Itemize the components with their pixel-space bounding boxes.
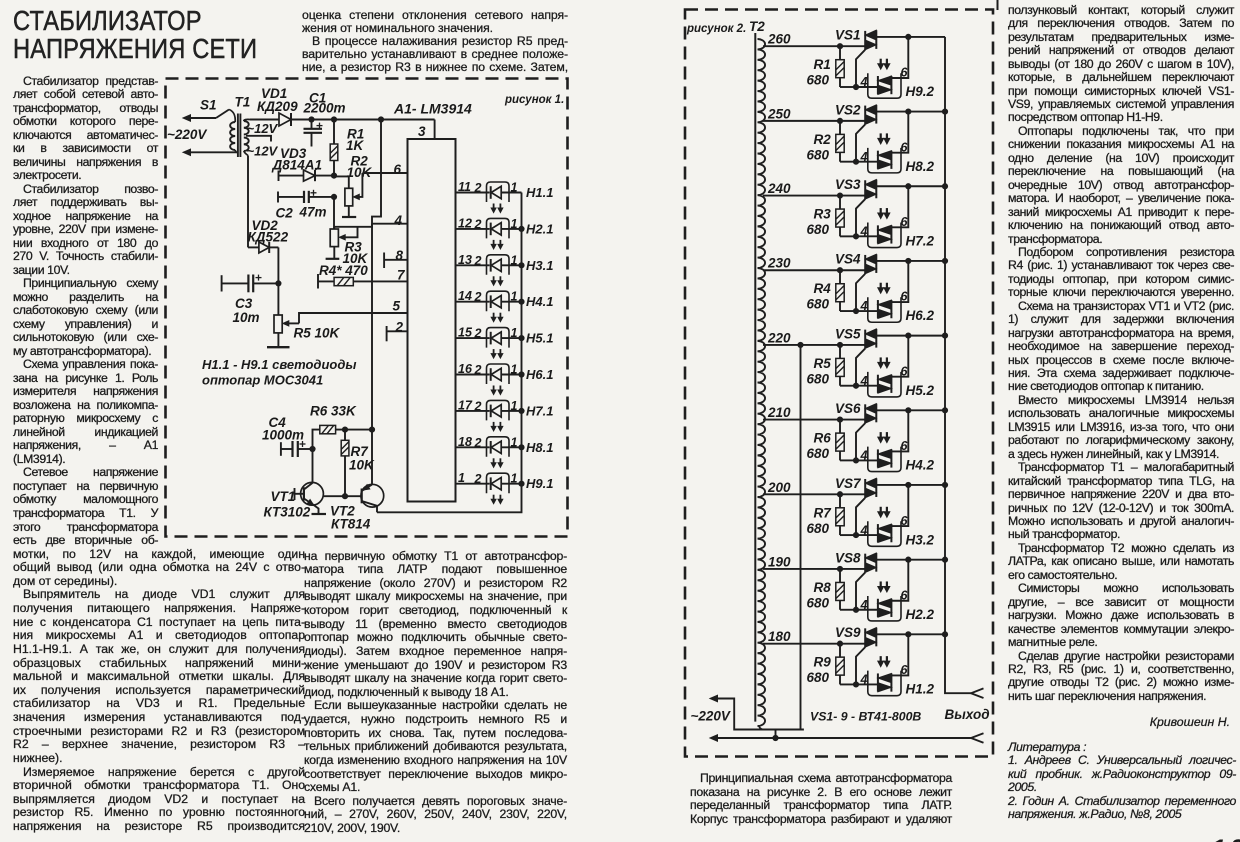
svg-text:Н8.1: Н8.1 xyxy=(526,440,553,455)
node tap 250 / R2 junction xyxy=(837,118,842,123)
svg-text:S1: S1 xyxy=(200,98,217,113)
svg-text:VS7: VS7 xyxy=(835,476,862,491)
svg-text:VS9: VS9 xyxy=(835,625,861,640)
wire to pin 6 of Н7.2 xyxy=(891,186,908,229)
emission arrows of Н7.2 xyxy=(878,208,890,219)
triac VS8 xyxy=(835,550,876,572)
wire pin 4 of Н7.2 xyxy=(856,225,878,239)
photo-triac of Н2.2 xyxy=(878,599,892,617)
label T2 xyxy=(749,19,765,34)
resistor R9 680 xyxy=(807,644,857,686)
svg-text:4: 4 xyxy=(860,75,868,89)
svg-text:220: 220 xyxy=(767,330,791,345)
photo-triac of Н7.2 xyxy=(878,225,892,243)
svg-text:680: 680 xyxy=(807,670,830,685)
wire to pin 6 of Н5.2 xyxy=(891,336,908,379)
node gate junction VS7 xyxy=(853,532,858,537)
wire centre tap of T1 xyxy=(246,136,271,142)
svg-text:Н9.2: Н9.2 xyxy=(906,84,935,99)
open terminal of C3 line xyxy=(221,275,223,291)
emission arrows of Н7.1 xyxy=(491,422,503,431)
svg-text:3: 3 xyxy=(418,124,426,139)
node tap 240 / R3 junction xyxy=(837,193,842,198)
node opto feed junction xyxy=(906,408,911,413)
wire pin 4 xyxy=(372,213,407,228)
node output bus junction xyxy=(942,408,947,413)
wire R6 left lead to C4 node xyxy=(313,430,320,449)
wire tap 210 xyxy=(763,405,865,420)
wire gate of VS8 xyxy=(856,572,865,609)
label VS1-9 - ВТ41-800В xyxy=(810,710,921,724)
svg-text:680: 680 xyxy=(807,595,830,610)
wire VS8 output xyxy=(876,559,945,561)
svg-text:R6 33K: R6 33K xyxy=(310,404,357,419)
wire R1 to VD3 node xyxy=(333,161,335,176)
svg-text:1: 1 xyxy=(511,399,518,413)
label Н7.2 xyxy=(906,234,935,249)
node gate junction VS9 xyxy=(853,682,858,687)
svg-text:Н6.1: Н6.1 xyxy=(526,367,553,382)
svg-text:R9: R9 xyxy=(814,655,832,670)
node tap 260 / R1 junction xyxy=(837,44,842,49)
wire tap 240 xyxy=(763,181,865,196)
resistor R4* 470 xyxy=(318,263,407,286)
wire pin 6 xyxy=(362,162,407,177)
emission arrows of Н3.2 xyxy=(878,507,890,518)
transformer T1 core xyxy=(238,114,241,158)
svg-text:1: 1 xyxy=(511,363,518,377)
LED of optocoupler Н9.1 xyxy=(487,472,522,494)
svg-text:Н1.2: Н1.2 xyxy=(906,682,935,697)
wire to pin 6 of Н4.2 xyxy=(891,410,908,453)
svg-text:1: 1 xyxy=(511,326,518,340)
wire ~220V upper terminal xyxy=(710,695,804,729)
svg-text:2: 2 xyxy=(474,436,482,450)
svg-text:2: 2 xyxy=(474,399,482,413)
node opto feed junction xyxy=(906,557,911,562)
transistor VT2 КТ814 xyxy=(330,484,384,531)
svg-text:1: 1 xyxy=(511,217,518,231)
label Н5.2 xyxy=(906,383,935,398)
svg-text:рисунок 1.: рисунок 1. xyxy=(504,94,564,106)
wire gate of VS4 xyxy=(856,274,865,311)
node LED bus junction xyxy=(519,336,524,341)
wire VS4 output xyxy=(876,260,945,262)
svg-text:4: 4 xyxy=(394,213,403,228)
label рисунок 1 xyxy=(504,94,564,106)
label pin 7 xyxy=(397,268,406,283)
label ~220V (fig1 input) xyxy=(167,127,207,142)
emission arrows of Н8.2 xyxy=(878,133,890,144)
LED of optocoupler Н2.1 xyxy=(487,217,522,239)
wire pin 4 of Н1.2 xyxy=(856,673,878,687)
svg-text:200: 200 xyxy=(767,480,791,495)
svg-text:Н2.2: Н2.2 xyxy=(906,607,935,622)
wire pin4 jog to R3 xyxy=(334,224,372,227)
svg-text:Н7.1: Н7.1 xyxy=(526,403,553,418)
svg-text:рисунок 2.: рисунок 2. xyxy=(686,23,746,35)
svg-text:680: 680 xyxy=(807,521,830,536)
svg-text:4: 4 xyxy=(860,225,868,239)
svg-text:Н5.1: Н5.1 xyxy=(526,331,553,346)
label Н4.2 xyxy=(906,458,935,473)
wire VS6 output xyxy=(876,409,945,411)
label Выход xyxy=(945,707,990,722)
label Н1.2 xyxy=(906,682,935,697)
svg-text:Н2.1: Н2.1 xyxy=(526,221,553,236)
wire output bus xyxy=(945,37,971,693)
open terminal of C4 line xyxy=(280,442,282,456)
LED of optocoupler Н7.1 xyxy=(487,399,522,421)
node opto feed junction xyxy=(906,482,911,487)
optocoupler triac Н1.2 housing xyxy=(868,671,901,696)
node gate junction VS5 xyxy=(853,383,858,388)
wire pin 12 to LED xyxy=(456,216,490,231)
svg-text:R5: R5 xyxy=(814,356,832,371)
svg-text:Выход: Выход xyxy=(945,707,990,722)
wire tap 220 xyxy=(763,330,865,345)
svg-text:~220V: ~220V xyxy=(691,709,731,724)
svg-text:1: 1 xyxy=(511,253,518,267)
svg-text:10m: 10m xyxy=(233,310,260,325)
wire base line VT1-R7-VT2 xyxy=(323,494,361,499)
wire pin 17 to LED xyxy=(456,398,490,413)
triac VS7 xyxy=(835,476,876,498)
svg-text:~12V: ~12V xyxy=(247,121,279,136)
wire pin 4 of Н2.2 xyxy=(856,598,878,612)
svg-text:1: 1 xyxy=(458,471,465,485)
label Н3.1 xyxy=(526,258,553,273)
wire pin 4 of Н3.2 xyxy=(856,523,878,537)
svg-text:VS2: VS2 xyxy=(835,102,861,117)
svg-text:14: 14 xyxy=(458,289,472,303)
wire rail down to R1 xyxy=(333,120,335,145)
wire gate of VS6 xyxy=(856,423,865,460)
svg-text:4: 4 xyxy=(860,374,868,388)
wire R2 bottom lead xyxy=(348,206,350,217)
node gate junction VS2 xyxy=(853,159,858,164)
node LED bus junction xyxy=(519,299,524,304)
wire pin 4 of Н4.2 xyxy=(856,449,878,463)
label Н8.1 xyxy=(526,440,553,455)
svg-text:4: 4 xyxy=(860,150,868,164)
node gate junction VS1 xyxy=(853,84,858,89)
svg-text:2: 2 xyxy=(474,254,482,268)
wire secondary bottom to VD2 xyxy=(247,156,249,248)
triac VS4 xyxy=(835,252,876,274)
output terminal chevron lower xyxy=(971,733,984,743)
emission arrows of Н8.1 xyxy=(491,458,503,467)
svg-text:7: 7 xyxy=(397,268,406,283)
photo-triac of Н1.2 xyxy=(878,673,892,691)
wire tap 250 xyxy=(763,106,865,121)
wire VT1 collector to C4 node xyxy=(312,449,314,483)
node LED bus junction xyxy=(519,445,524,450)
label Н6.1 xyxy=(526,367,553,382)
node opto feed junction xyxy=(906,184,911,189)
wire to pin 6 of Н3.2 xyxy=(891,485,908,528)
node tap 180 / R9 junction xyxy=(837,641,842,646)
node VD3 junction xyxy=(331,173,336,178)
node output bus junction xyxy=(942,557,947,562)
wire pin 4 of Н6.2 xyxy=(856,299,878,313)
wire VD3 line xyxy=(279,175,335,177)
svg-text:Н9.1: Н9.1 xyxy=(526,476,553,491)
resistor R6 33K xyxy=(310,404,372,434)
trimmer R2 10K xyxy=(345,154,373,206)
emission arrows of Н5.1 xyxy=(491,349,503,358)
output terminal chevron upper xyxy=(971,688,984,698)
wire pin 5 xyxy=(299,299,407,324)
open terminal of R4 line xyxy=(317,274,319,289)
emission arrows of Н5.2 xyxy=(878,357,890,368)
wire gate of VS7 xyxy=(856,498,865,535)
svg-text:4: 4 xyxy=(860,673,868,687)
svg-text:12: 12 xyxy=(458,216,472,230)
svg-text:680: 680 xyxy=(807,446,830,461)
svg-text:680: 680 xyxy=(807,147,830,162)
wire R3 bottom lead xyxy=(333,247,335,259)
wire VS7 output xyxy=(876,484,945,486)
optocoupler triac Н8.2 housing xyxy=(868,148,901,173)
svg-text:R2: R2 xyxy=(814,132,832,147)
node opto feed junction xyxy=(906,109,911,114)
wire pin 13 to LED xyxy=(456,253,490,268)
node opto feed junction xyxy=(906,34,911,39)
transformer T1 primary winding xyxy=(229,110,237,153)
wire tap 200 xyxy=(763,480,865,495)
svg-text:R5 10K: R5 10K xyxy=(294,326,341,341)
wire top rail V+ xyxy=(291,119,435,121)
svg-text:VS5: VS5 xyxy=(835,326,861,341)
svg-text:оптопар МОС3041: оптопар МОС3041 xyxy=(202,373,323,388)
capacitor C1 2200m xyxy=(303,91,346,147)
node opto feed junction xyxy=(906,258,911,263)
figure 2 dashed border xyxy=(685,10,993,757)
svg-text:2: 2 xyxy=(474,327,482,341)
svg-text:Н4.2: Н4.2 xyxy=(906,458,935,473)
wire VS3 output xyxy=(876,185,945,187)
node LED bus junction xyxy=(519,372,524,377)
svg-text:C3: C3 xyxy=(235,296,253,311)
capacitor C2 47m xyxy=(276,190,335,221)
LED of optocoupler Н4.1 xyxy=(487,290,522,312)
wire to pin 6 of Н6.2 xyxy=(891,261,908,304)
node gate junction VS4 xyxy=(853,308,858,313)
node C1 junction xyxy=(309,117,314,122)
svg-text:2200m: 2200m xyxy=(303,101,346,116)
svg-text:2: 2 xyxy=(474,363,482,377)
svg-text:16: 16 xyxy=(458,362,473,376)
wire VS9 output xyxy=(876,633,945,635)
svg-text:Н1.1: Н1.1 xyxy=(526,185,553,200)
svg-text:R1: R1 xyxy=(814,57,831,72)
wire tap 180 xyxy=(763,629,865,644)
label Н2.1 xyxy=(526,221,553,236)
photo-triac of Н4.2 xyxy=(878,449,892,467)
svg-text:~220V: ~220V xyxy=(167,127,207,142)
trimmer R5 10K xyxy=(274,283,341,340)
node output bus junction xyxy=(942,333,947,338)
node LED bus junction xyxy=(519,226,524,231)
svg-text:250: 250 xyxy=(767,106,791,121)
svg-text:1: 1 xyxy=(511,290,518,304)
svg-text:2: 2 xyxy=(474,181,482,195)
svg-text:15: 15 xyxy=(458,326,473,340)
wire gate of VS9 xyxy=(856,647,865,684)
label Н6.2 xyxy=(906,308,935,323)
svg-text:2: 2 xyxy=(395,320,404,335)
wire pin 4 of Н5.2 xyxy=(856,374,878,388)
svg-text:КТ814: КТ814 xyxy=(331,517,371,532)
switch S1 xyxy=(183,98,229,122)
autotransformer T2 core xyxy=(754,33,756,722)
node opto feed junction xyxy=(906,632,911,637)
label Н9.1 xyxy=(526,476,553,491)
svg-text:Н8.2: Н8.2 xyxy=(906,159,935,174)
triac VS9 xyxy=(835,625,876,647)
autotransformer T2 winding xyxy=(758,39,766,730)
node output bus junction xyxy=(942,109,947,114)
svg-text:T1: T1 xyxy=(235,95,251,110)
optocoupler triac Н2.2 housing xyxy=(868,596,901,621)
svg-text:1: 1 xyxy=(511,435,518,449)
svg-text:A1- LM3914: A1- LM3914 xyxy=(393,101,472,117)
svg-text:47m: 47m xyxy=(299,205,327,220)
wire R5 wiper to pin 5 xyxy=(283,321,299,326)
emission arrows of Н1.1 xyxy=(491,204,503,213)
wire R2 top lead xyxy=(334,176,349,188)
wire pin 4 of Н8.2 xyxy=(856,150,878,164)
photo-triac of Н9.2 xyxy=(878,76,892,94)
wire gate of VS1 xyxy=(856,50,865,87)
resistor R5 680 xyxy=(807,345,857,387)
svg-text:VS1- 9 - ВТ41-800В: VS1- 9 - ВТ41-800В xyxy=(810,710,921,724)
emission arrows of Н6.2 xyxy=(878,283,890,294)
emission arrows of Н4.1 xyxy=(491,313,503,322)
wire pin 2 with open end xyxy=(387,320,408,342)
svg-text:VS6: VS6 xyxy=(835,401,861,416)
svg-text:18: 18 xyxy=(458,435,472,449)
label Н8.2 xyxy=(906,159,935,174)
label рисунок 2 xyxy=(686,23,746,35)
node output bus junction xyxy=(942,184,947,189)
resistor R7 10K xyxy=(341,430,375,497)
wire tap 260 xyxy=(763,32,865,47)
emission arrows of Н3.1 xyxy=(491,276,503,285)
svg-text:180: 180 xyxy=(768,629,791,644)
triac VS5 xyxy=(835,326,876,348)
column divider dashed xyxy=(997,0,999,10)
node tap 220 / R5 junction xyxy=(837,342,842,347)
transistor VT1 КТ3102 xyxy=(264,482,324,519)
photo-triac of Н5.2 xyxy=(878,375,892,393)
wire tap 230 xyxy=(763,256,865,271)
svg-text:13: 13 xyxy=(458,253,472,267)
op-amp/IC A1 LM3914 xyxy=(393,101,472,502)
diode VD1 КД209 xyxy=(257,86,298,126)
emission arrows of Н1.2 xyxy=(878,656,890,667)
node C2 junction xyxy=(331,194,336,199)
label ~12V upper xyxy=(247,121,279,136)
svg-text:6: 6 xyxy=(394,162,402,177)
ground under R5 xyxy=(267,346,290,348)
wire VS5 output xyxy=(876,335,945,337)
LED of optocoupler Н1.1 xyxy=(487,181,522,203)
open terminal of C2 line xyxy=(277,192,279,203)
node tap 210 / R6 junction xyxy=(837,417,842,422)
wire VS2 output xyxy=(876,111,945,113)
node tap 220 feed junction xyxy=(798,342,803,347)
svg-text:17: 17 xyxy=(458,398,473,412)
svg-text:Н7.2: Н7.2 xyxy=(906,234,935,249)
wire pin 16 to LED xyxy=(456,362,490,377)
svg-text:230: 230 xyxy=(767,256,791,271)
photo-triac of Н8.2 xyxy=(878,151,892,169)
svg-text:R7: R7 xyxy=(814,505,833,520)
wire 220V feed down xyxy=(800,345,802,730)
optocoupler triac Н3.2 housing xyxy=(868,521,901,546)
svg-text:1: 1 xyxy=(511,472,518,486)
wire tap 190 xyxy=(763,554,865,569)
resistor R1 680 xyxy=(807,46,857,87)
ground under R3 xyxy=(326,258,340,260)
emission arrows of Н2.2 xyxy=(878,581,890,592)
svg-text:10K: 10K xyxy=(349,458,375,473)
wire winding bottom to bus xyxy=(773,730,778,741)
svg-text:5: 5 xyxy=(393,299,401,314)
label ~12V lower xyxy=(247,144,279,159)
label Н3.2 xyxy=(906,532,935,547)
node R6/R7/V+ junctions xyxy=(342,427,374,432)
wire pin 3 entry xyxy=(418,120,435,140)
optocoupler triac Н5.2 housing xyxy=(868,372,901,397)
label Н1.1 xyxy=(526,185,553,200)
svg-text:260: 260 xyxy=(767,32,791,47)
resistor R8 680 xyxy=(807,569,857,611)
triac VS2 xyxy=(835,102,876,124)
diode VD2 КД522 xyxy=(248,218,289,253)
wire pin 18 to LED xyxy=(456,435,490,450)
wire VD2 to R5 node xyxy=(276,247,281,286)
wire secondary top to VD1 xyxy=(250,119,279,121)
svg-text:1000m: 1000m xyxy=(262,428,304,443)
node LED bus junction xyxy=(519,481,524,486)
svg-text:240: 240 xyxy=(767,181,791,196)
wire lower input xyxy=(183,149,237,155)
trimmer R3 10K xyxy=(330,227,368,266)
caption H1.1-H9.1 светодиоды оптопар МОС3041 xyxy=(202,357,356,388)
emission arrows of Н6.1 xyxy=(491,386,503,395)
node tap 190 / R8 junction xyxy=(837,566,842,571)
svg-text:КД209: КД209 xyxy=(257,99,298,114)
wire gate of VS2 xyxy=(856,124,865,161)
wire pin 15 to LED xyxy=(456,326,490,341)
svg-text:R4: R4 xyxy=(814,281,832,296)
svg-text:VS8: VS8 xyxy=(835,550,861,565)
wire bottom output bus xyxy=(710,735,971,741)
svg-text:1K: 1K xyxy=(346,138,365,153)
resistor R1 1K xyxy=(330,127,364,161)
emission arrows of Н4.2 xyxy=(878,432,890,443)
svg-text:4: 4 xyxy=(860,449,868,463)
wire VS1 output xyxy=(876,36,945,38)
node R1 rail junction xyxy=(331,117,336,122)
node output bus junction xyxy=(942,482,947,487)
wire pin 11 to LED xyxy=(456,180,490,195)
triac VS1 xyxy=(835,28,876,50)
emission arrows of Н9.2 xyxy=(878,59,890,69)
